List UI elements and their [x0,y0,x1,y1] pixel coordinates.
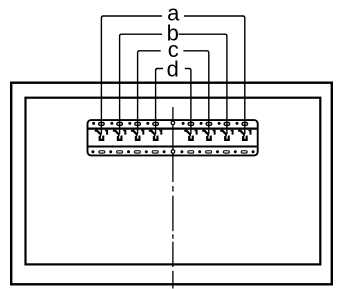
svg-text:d: d [167,57,179,82]
